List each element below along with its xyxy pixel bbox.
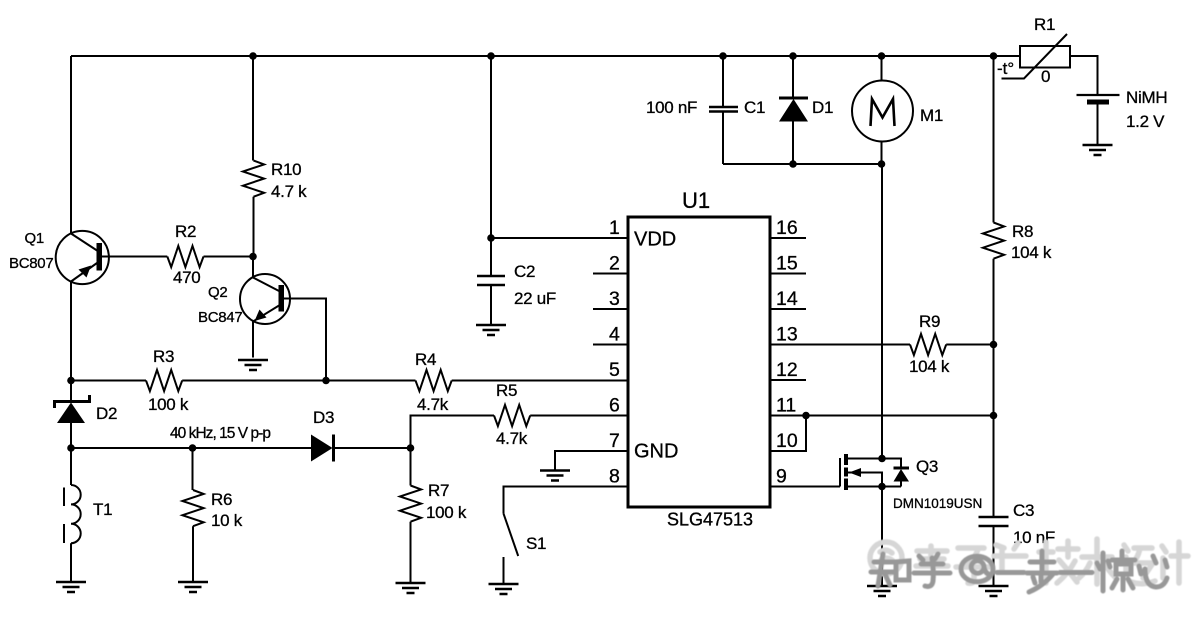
capacitor C3 [979, 517, 1009, 586]
body diode Q3 [882, 459, 909, 487]
svg-text:11: 11 [776, 395, 796, 417]
svg-text:D1: D1 [812, 98, 833, 117]
svg-text:6: 6 [609, 395, 620, 417]
ground R7 [396, 583, 426, 593]
junction D1 top rail [789, 52, 797, 60]
motor M1 [852, 56, 913, 164]
svg-text:7: 7 [609, 430, 620, 452]
svg-text:3: 3 [609, 288, 620, 310]
wire R3 to R4 [182, 380, 415, 382]
junction R1 top rail [990, 52, 998, 60]
svg-text:100 k: 100 k [148, 395, 189, 414]
svg-text:SLG47513: SLG47513 [667, 510, 753, 530]
svg-text:BC847: BC847 [198, 309, 242, 326]
resistor R3 [71, 380, 146, 382]
svg-text:C3: C3 [1013, 501, 1034, 520]
junction C2 pin1 node [487, 234, 495, 242]
svg-text:R8: R8 [1012, 222, 1033, 241]
IC U1 [628, 217, 770, 507]
resistor R9 [910, 334, 946, 355]
wire C1 bottom row [723, 163, 882, 165]
resistor R5 [494, 405, 530, 426]
switch S1 [504, 514, 519, 556]
svg-text:Q3: Q3 [916, 457, 938, 476]
junction Q3 source node [878, 483, 886, 491]
junction pin11 C3 node [990, 412, 998, 420]
diode D3 [311, 435, 411, 462]
ground R6 [178, 582, 208, 592]
wire R1 to battery [1070, 56, 1098, 95]
svg-text:470: 470 [173, 268, 200, 287]
junction R10 top rail [249, 52, 257, 60]
wire R8 column [993, 56, 995, 223]
resistor R7 [400, 448, 421, 583]
capacitor C1 [709, 56, 738, 164]
wire pin1 row [491, 237, 628, 239]
svg-text:R9: R9 [919, 312, 940, 331]
svg-text:22 uF: 22 uF [514, 289, 556, 308]
svg-text:T1: T1 [93, 500, 112, 519]
svg-text:R2: R2 [175, 222, 196, 241]
svg-text:16: 16 [776, 217, 798, 239]
svg-text:1.2 V: 1.2 V [1126, 112, 1165, 131]
svg-text:4.7k: 4.7k [417, 395, 449, 414]
pin 14 stub [770, 308, 806, 310]
wire Q1 emitter down [70, 282, 72, 381]
svg-text:14: 14 [776, 288, 798, 310]
ground Q2 [238, 360, 268, 370]
junction Q2 base node [249, 253, 257, 261]
svg-text:R5: R5 [496, 381, 517, 400]
pin 12 stub [770, 379, 806, 381]
junction R8 R9 node [990, 341, 998, 349]
transformer T1 [64, 448, 81, 582]
svg-text:DMN1019USN: DMN1019USN [893, 496, 982, 511]
wire pin6 corner [411, 416, 495, 449]
pin 8 wire [504, 487, 629, 514]
pin 11 wire [770, 415, 994, 417]
junction D2 T1 node [67, 444, 75, 452]
wire Q1 base to R2 [102, 256, 168, 258]
junction R6 node [189, 444, 197, 452]
pin 3 stub [593, 308, 628, 310]
svg-text:BC807: BC807 [9, 255, 53, 272]
wire top rail [71, 55, 1020, 57]
svg-text:4.7 k: 4.7 k [271, 182, 307, 201]
svg-text:2: 2 [609, 253, 620, 275]
resistor R6 [182, 448, 203, 582]
svg-text:C1: C1 [744, 98, 765, 117]
wire Q3 drain up [881, 164, 883, 459]
svg-text:12: 12 [776, 359, 798, 381]
svg-text:C2: C2 [514, 262, 535, 281]
svg-text:R4: R4 [415, 350, 436, 369]
ground S1 [489, 584, 519, 594]
junction Q1 emitter R3 node [67, 377, 75, 385]
svg-text:100 nF: 100 nF [646, 98, 697, 117]
svg-text:D3: D3 [313, 408, 334, 427]
svg-text:R3: R3 [153, 347, 174, 366]
wire left vertical to Q1 [70, 56, 72, 234]
pin 4 stub [593, 344, 628, 346]
svg-text:4.7k: 4.7k [496, 429, 528, 448]
junction M1 bottom node [878, 160, 886, 168]
svg-text:R10: R10 [271, 160, 301, 179]
mosfet Q3 [840, 454, 882, 490]
pin 9 wire to gate [770, 486, 840, 488]
pin 15 stub [770, 273, 806, 275]
wire S1 bottom [503, 557, 505, 584]
svg-text:NiMH: NiMH [1126, 88, 1167, 107]
capacitor C2 [477, 56, 505, 325]
svg-text:U1: U1 [682, 188, 710, 213]
svg-text:-t°: -t° [997, 59, 1014, 78]
svg-text:4: 4 [609, 324, 620, 346]
svg-text:D2: D2 [96, 404, 117, 423]
svg-text:VDD: VDD [634, 229, 676, 251]
svg-text:104 k: 104 k [1011, 243, 1052, 262]
pin 7 wire and ground [555, 451, 628, 471]
wire R8 node to pin11 node [993, 345, 995, 416]
wire Q3 source down [881, 487, 883, 587]
resistor R4 [416, 370, 452, 391]
svg-text:R1: R1 [1034, 15, 1055, 34]
transistor Q2 [240, 257, 290, 325]
ground T1 [56, 582, 86, 592]
svg-text:Q2: Q2 [208, 284, 227, 301]
battery NiMH [1077, 95, 1120, 145]
junction pin11 pin10 node [802, 412, 810, 420]
svg-text:S1: S1 [526, 534, 546, 553]
wire Q2 emitter [252, 322, 254, 358]
svg-text:104 k: 104 k [909, 357, 950, 376]
diode D1 [779, 56, 808, 164]
svg-text:M1: M1 [920, 106, 943, 125]
junction C1 top rail [719, 52, 727, 60]
svg-text:8: 8 [609, 466, 620, 488]
pin 13 wire to R9 [770, 344, 910, 346]
svg-text:40 kHz, 15 V p-p: 40 kHz, 15 V p-p [170, 425, 271, 442]
wire down to C3 [993, 416, 995, 518]
diode D2 zener [55, 381, 90, 449]
ground Q3 [867, 586, 897, 596]
junction D1 bottom node [789, 160, 797, 168]
wire R4 to pin5 [452, 380, 628, 382]
wire R2 to node [204, 256, 254, 258]
svg-text:9: 9 [776, 466, 787, 488]
svg-text:0: 0 [1041, 67, 1050, 86]
pin 10 stub and link [770, 416, 806, 452]
pin 16 stub [770, 237, 806, 239]
svg-text:5: 5 [609, 359, 620, 381]
svg-text:15: 15 [776, 253, 798, 275]
svg-text:1: 1 [609, 217, 620, 239]
resistor R8 [983, 223, 1004, 259]
svg-text:R7: R7 [428, 481, 449, 500]
junction M1 top rail [878, 52, 886, 60]
resistor R10 [243, 56, 264, 257]
svg-text:R6: R6 [211, 490, 232, 509]
junction C2 top rail [487, 52, 495, 60]
ground C3 [979, 586, 1009, 596]
svg-text:10 k: 10 k [211, 511, 243, 530]
junction Q3 drain node [878, 455, 886, 463]
junction Q2 collector R3 R4 node [322, 377, 330, 385]
resistor R2 [167, 246, 203, 267]
ground battery [1083, 145, 1113, 155]
svg-text:10: 10 [776, 430, 798, 452]
svg-text:100 k: 100 k [426, 503, 467, 522]
wire R5 to pin6 [530, 415, 628, 417]
ground C2 [476, 325, 506, 335]
svg-text:Q1: Q1 [25, 230, 44, 247]
pin 2 stub [593, 273, 628, 275]
junction R7 R5 D3 node [407, 444, 415, 452]
svg-text:GND: GND [634, 441, 678, 463]
transistor Q1 [56, 231, 109, 284]
thermistor R1 [1002, 34, 1071, 79]
svg-text:13: 13 [776, 324, 798, 346]
wire Q2 collector [284, 299, 327, 381]
wire 40kHz row [71, 447, 311, 449]
